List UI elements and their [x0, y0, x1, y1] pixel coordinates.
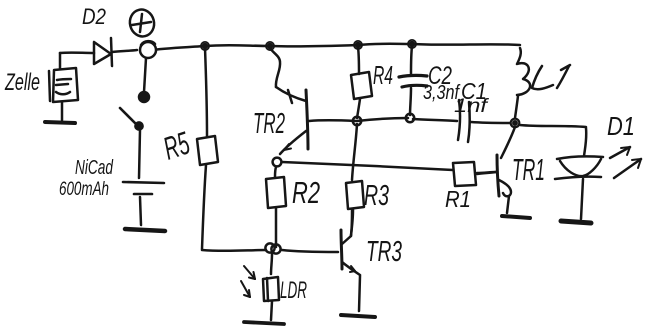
svg-text:TR3: TR3	[366, 236, 402, 268]
svg-text:TR1: TR1	[512, 152, 545, 187]
svg-text:1nf: 1nf	[454, 96, 489, 117]
svg-text:600mAh: 600mAh	[59, 179, 109, 200]
svg-text:D2: D2	[82, 4, 106, 29]
svg-text:R3: R3	[364, 180, 389, 212]
svg-text:R4: R4	[373, 60, 393, 90]
svg-text:D1: D1	[607, 111, 635, 141]
svg-text:LDR: LDR	[280, 277, 307, 304]
svg-text:R1: R1	[445, 186, 471, 212]
svg-text:R2: R2	[292, 175, 320, 210]
svg-text:R5: R5	[159, 125, 194, 167]
svg-text:Zelle: Zelle	[4, 69, 40, 96]
svg-text:NiCad: NiCad	[75, 157, 114, 179]
svg-text:TR2: TR2	[253, 108, 285, 140]
